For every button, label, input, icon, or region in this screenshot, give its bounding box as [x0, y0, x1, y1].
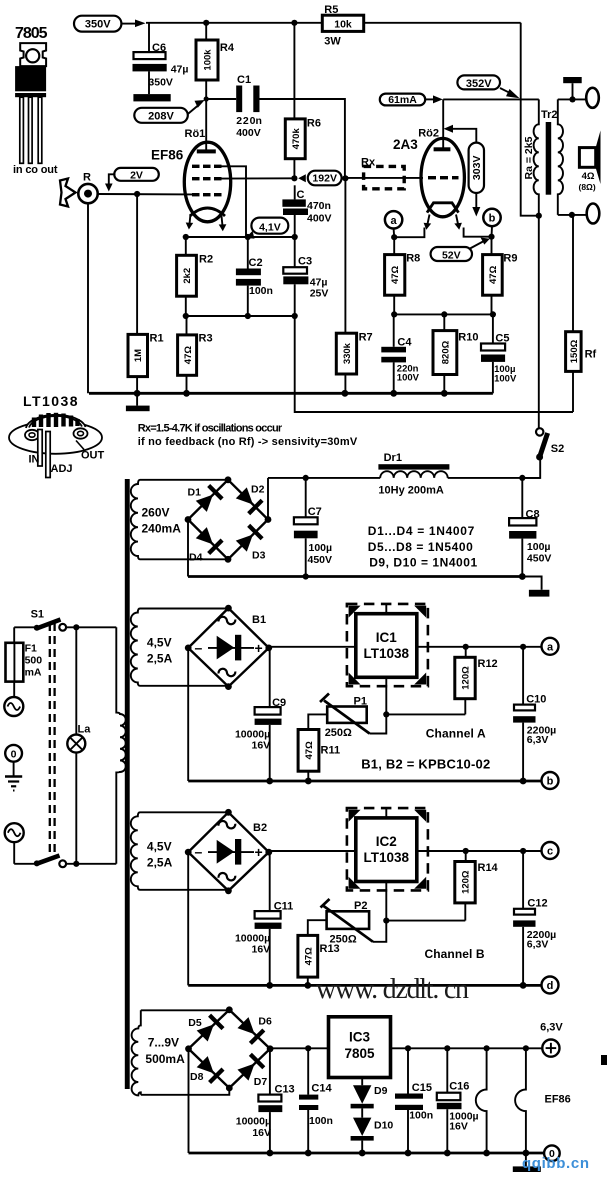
wire filament left — [394, 228, 424, 238]
Tr2 primary winding — [534, 99, 539, 215]
svg-text:16V: 16V — [252, 740, 271, 752]
svg-text:www. dzdlt. cn: www. dzdlt. cn — [316, 974, 469, 1005]
junction dot C10 top — [520, 644, 526, 650]
wire bus B — [188, 984, 541, 987]
fuse F1 500mA — [6, 627, 43, 681]
junction dot R1/ground — [134, 390, 141, 397]
node 350V label — [74, 16, 146, 32]
diode D4 — [195, 526, 224, 555]
svg-text:1M: 1M — [133, 349, 144, 362]
junction dot R12 top — [463, 644, 469, 650]
junction dot C13 bottom — [267, 1150, 274, 1157]
wire ADJ line (B) — [383, 882, 465, 924]
resistor R7 330k — [336, 178, 372, 393]
svg-text:303V: 303V — [471, 156, 483, 181]
svg-text:4Ω: 4Ω — [582, 171, 595, 182]
svg-text:4,5V: 4,5V — [147, 636, 172, 650]
junction dot heater1 top — [484, 1045, 490, 1051]
svg-text:D9: D9 — [374, 1085, 388, 1097]
svg-text:470n: 470n — [307, 200, 331, 212]
capacitor C13 10000u 16V — [236, 1049, 295, 1153]
svg-text:D5...D8 = 1N5400: D5...D8 = 1N5400 — [368, 540, 473, 554]
junction dot C2 bottom — [245, 313, 251, 319]
svg-text:6,3V: 6,3V — [527, 734, 549, 746]
wire bridge plus up to HV rail — [267, 478, 269, 520]
junction dot b — [488, 234, 494, 240]
ground (below C6) — [133, 94, 170, 101]
svg-text:2,5A: 2,5A — [147, 856, 173, 870]
speaker 4ohm (8ohm) — [579, 131, 601, 193]
diode D1 — [195, 484, 224, 513]
svg-text:–: – — [195, 844, 203, 860]
svg-text:B2: B2 — [253, 822, 267, 834]
capacitor C1 220n 400V — [236, 74, 262, 139]
svg-text:C4: C4 — [397, 336, 412, 348]
winding 4,5V 2,5A (A) — [131, 609, 173, 686]
bridge B2 — [185, 809, 272, 894]
wire cathode line — [186, 236, 295, 238]
Tr2 secondary winding — [558, 99, 563, 214]
svg-text:R14: R14 — [478, 862, 499, 874]
svg-text:Rx=1.5-4.7K if oscillations oc: Rx=1.5-4.7K if oscillations occur — [138, 423, 283, 435]
svg-text:260V: 260V — [142, 506, 170, 520]
svg-text:R7: R7 — [359, 332, 373, 344]
wire HV return bus — [188, 575, 522, 578]
wire winding to bridge bottom — [140, 558, 228, 560]
svg-text:S1: S1 — [31, 609, 44, 621]
svg-text:Rö2: Rö2 — [418, 128, 439, 140]
resistor R6 470k — [285, 23, 321, 179]
wire secondary top — [558, 98, 587, 100]
junction dot C8 return — [519, 573, 526, 580]
junction dot heater1 bottom — [483, 1150, 490, 1157]
edge mark right — [601, 1055, 607, 1065]
resistor R13 47ohm — [298, 935, 340, 985]
svg-text:C5: C5 — [495, 333, 509, 345]
junction dot C15 top — [405, 1045, 411, 1051]
rectifier bridge D1-D4 — [188, 480, 268, 560]
junction dot C10 bottom — [520, 778, 527, 785]
ground (main bus) — [126, 393, 150, 411]
svg-text:47Ω: 47Ω — [488, 265, 499, 284]
svg-text:100n: 100n — [309, 1115, 333, 1127]
svg-text:C7: C7 — [308, 506, 322, 518]
wire B1 plus to IC1 — [269, 646, 356, 648]
svg-text:R11: R11 — [321, 745, 341, 757]
capacitor C11 10000u 16V — [235, 852, 293, 985]
svg-text:S2: S2 — [551, 443, 564, 455]
wire B2 plus to IC2 — [269, 850, 356, 852]
switch S1 (lower pole) — [14, 856, 116, 868]
svg-text:7805: 7805 — [344, 1046, 375, 1061]
junction dot C9 bottom — [266, 778, 273, 785]
svg-text:mA: mA — [25, 667, 42, 679]
IC package LT1038 (TO-3) — [9, 393, 105, 478]
transformer core — [125, 479, 130, 1089]
wire winding to B1 — [140, 608, 228, 610]
input plug symbol — [60, 179, 76, 207]
junction dot C15 bottom — [405, 1150, 412, 1157]
svg-text:C2: C2 — [249, 257, 263, 269]
node 6,3V plus — [540, 1022, 563, 1057]
junction dot a — [391, 234, 397, 240]
svg-text:R10: R10 — [458, 332, 478, 344]
wire 350V rail — [146, 22, 322, 24]
regulator IC3 7805 — [329, 1017, 391, 1078]
svg-text:a: a — [547, 642, 554, 654]
wire bridge plus to IC3 — [270, 1047, 328, 1049]
svg-text:500mA: 500mA — [145, 1052, 185, 1066]
svg-text:208V: 208V — [148, 111, 174, 123]
svg-text:100n: 100n — [409, 1109, 433, 1121]
junction dot C8/rail — [519, 475, 525, 481]
capacitor C 470n 400V (screen bypass) — [282, 185, 331, 237]
svg-text:470k: 470k — [291, 128, 302, 150]
diode D2 — [235, 486, 264, 515]
AC source upper — [4, 682, 23, 716]
svg-text:R8: R8 — [406, 253, 420, 265]
output jack top — [586, 88, 599, 108]
svg-text:D5: D5 — [188, 1017, 202, 1029]
svg-text:330k: 330k — [342, 342, 353, 364]
resistor Rf 150ohm — [566, 215, 597, 412]
svg-text:C3: C3 — [298, 256, 312, 268]
svg-text:IC3: IC3 — [349, 1030, 371, 1045]
junction dots bridge corners — [225, 476, 232, 483]
svg-text:250Ω: 250Ω — [325, 727, 352, 739]
junction dot R7/ground — [342, 390, 349, 397]
svg-text:D9, D10 = 1N4001: D9, D10 = 1N4001 — [369, 555, 477, 569]
node b (supply) — [542, 772, 559, 789]
capacitor C9 10000u 16V — [235, 648, 286, 781]
potentiometer P2 250ohm — [321, 899, 387, 945]
resistor R8 47ohm — [385, 237, 421, 314]
svg-text:120Ω: 120Ω — [461, 870, 472, 894]
junction dot heater2 bottom / ground — [523, 1150, 530, 1157]
transformer primary winding — [116, 627, 125, 864]
svg-text:IN: IN — [29, 454, 40, 466]
node b (amp) — [483, 209, 500, 237]
wire C1 to grid line — [260, 99, 345, 178]
svg-text:D4: D4 — [189, 552, 203, 564]
wire IC2 out to node c — [417, 850, 542, 852]
resistor R3 47ohm — [178, 316, 213, 393]
diode D9 — [351, 1078, 388, 1118]
svg-text:10000µ: 10000µ — [236, 1116, 271, 1128]
capacitor C7 100u 450V — [294, 478, 332, 577]
svg-text:LT1038: LT1038 — [364, 850, 410, 865]
junction dot R10/ground — [441, 390, 448, 397]
ground (chassis above speaker) — [563, 77, 582, 99]
capacitor C12 2200u 6,3V — [513, 851, 556, 985]
wire cathode bottom line — [186, 315, 295, 317]
junction dot Tr2 primary bottom — [536, 213, 542, 219]
junction dot R9/C5 — [490, 311, 496, 317]
svg-text:C11: C11 — [274, 901, 294, 913]
rectifier bridge D5-D8 — [189, 1010, 271, 1088]
svg-text:500: 500 — [25, 655, 43, 667]
svg-text:R3: R3 — [199, 333, 213, 345]
junction dot 350V/R6 — [291, 20, 297, 26]
regulator IC1 LT1038 — [347, 604, 428, 686]
junction dot R13 bottom — [304, 982, 311, 989]
resistor R14 120ohm — [455, 851, 499, 921]
svg-text:La: La — [78, 724, 92, 736]
svg-text:820Ω: 820Ω — [440, 340, 451, 364]
svg-text:c: c — [547, 846, 553, 858]
svg-text:Rö1: Rö1 — [185, 128, 206, 140]
junction dot C3 bottom / feedback — [292, 313, 298, 319]
resistor R4 100k — [196, 23, 235, 99]
svg-text:52V: 52V — [442, 249, 461, 261]
lamp La — [67, 627, 91, 864]
IC package 7805 (TO-220) — [13, 25, 58, 176]
bridge B1 — [185, 605, 272, 690]
wire g3 to cathode — [221, 166, 246, 237]
svg-text:C15: C15 — [412, 1082, 432, 1094]
resistor R12 120ohm — [455, 647, 498, 715]
node c (supply) — [542, 842, 559, 859]
capacitor C4 220n 100V — [381, 314, 419, 393]
wire winding to B2 — [140, 811, 228, 813]
regulator IC2 LT1038 — [347, 808, 428, 890]
node a (amp) — [385, 211, 402, 237]
junction dot R2/R3 — [183, 313, 189, 319]
svg-text:qqibb.cn: qqibb.cn — [522, 1155, 589, 1172]
resistor R9 47ohm — [483, 237, 518, 315]
potentiometer P1 250ohm — [320, 694, 386, 739]
svg-text:47Ω: 47Ω — [390, 265, 401, 284]
svg-text:R9: R9 — [503, 253, 517, 265]
svg-text:C10: C10 — [526, 694, 546, 706]
svg-text:350V: 350V — [85, 19, 111, 31]
svg-text:100V: 100V — [397, 373, 420, 384]
wire bridge minus down to heater bus — [188, 1049, 190, 1153]
resistor Rx (dashed) — [345, 157, 423, 189]
svg-text:Channel A: Channel A — [426, 727, 486, 741]
svg-text:2k2: 2k2 — [182, 268, 193, 284]
svg-text:D7: D7 — [254, 1076, 268, 1088]
wire P1 left to R11 — [308, 714, 327, 729]
svg-text:Channel B: Channel B — [425, 947, 485, 961]
node d (supply) — [542, 977, 559, 994]
svg-text:10k: 10k — [334, 19, 352, 31]
svg-text:LT1038: LT1038 — [23, 393, 78, 409]
svg-text:EF86: EF86 — [151, 148, 184, 163]
svg-text:Rf: Rf — [585, 349, 597, 361]
node 0 terminal — [544, 1145, 560, 1161]
junction dot R14 top — [463, 848, 469, 854]
junction dot C11 bottom — [266, 982, 273, 989]
svg-text:D1...D4 = 1N4007: D1...D4 = 1N4007 — [368, 524, 475, 538]
output jack bottom — [587, 204, 600, 224]
switch S2 — [522, 216, 564, 478]
svg-text:Ra = 2k5: Ra = 2k5 — [523, 136, 535, 179]
svg-text:OUT: OUT — [81, 450, 105, 462]
svg-text:47Ω: 47Ω — [183, 346, 194, 365]
svg-text:47Ω: 47Ω — [303, 947, 314, 966]
svg-text:ADJ: ADJ — [51, 463, 73, 475]
svg-text:D3: D3 — [252, 550, 266, 562]
svg-text:100µ: 100µ — [309, 542, 333, 554]
heater EF86 no.2 — [515, 1048, 526, 1153]
svg-text:R1: R1 — [150, 333, 164, 345]
wire winding to bridge top — [140, 479, 228, 481]
ground (HV) — [522, 577, 549, 597]
svg-text:+: + — [255, 640, 263, 656]
switch link (dashed) — [49, 623, 51, 858]
svg-text:Dr1: Dr1 — [384, 452, 402, 464]
diode D6 — [236, 1016, 265, 1045]
resistor R2 2k2 — [177, 237, 213, 316]
junction dot cathode/C2 — [245, 234, 251, 240]
svg-text:4,1V: 4,1V — [259, 221, 281, 233]
junction dot lamp top — [73, 624, 79, 630]
diode D7 — [236, 1053, 265, 1082]
svg-text:100n: 100n — [249, 285, 273, 297]
wire filament bias bus — [394, 313, 493, 315]
svg-text:–: – — [195, 640, 203, 656]
svg-text:R6: R6 — [307, 118, 321, 130]
wire feedback bus to Rf — [295, 316, 573, 412]
svg-text:R13: R13 — [320, 943, 340, 955]
svg-text:D6: D6 — [258, 1016, 272, 1028]
wire heater return bus — [189, 1152, 545, 1155]
svg-text:in co out: in co out — [13, 164, 58, 176]
wire anode to C1 — [206, 98, 236, 100]
wire secondary bottom — [558, 214, 587, 216]
svg-text:R4: R4 — [220, 42, 235, 54]
svg-text:B1: B1 — [252, 614, 266, 626]
node 208V label — [134, 100, 204, 123]
junction dot cathode/R2 — [183, 234, 189, 240]
wire winding to D bridge — [141, 1009, 230, 1011]
heater EF86 no.1 — [476, 1048, 487, 1153]
junction dot lamp bottom — [73, 861, 79, 867]
junction dot cathode/C3 — [292, 234, 298, 240]
svg-text:Tr2: Tr2 — [541, 109, 558, 121]
svg-text:R2: R2 — [199, 254, 213, 266]
capacitor C14 100n — [299, 1048, 333, 1153]
winding 4,5V 2,5A (B) — [131, 812, 173, 890]
svg-text:16V: 16V — [449, 1121, 468, 1133]
capacitor C2 100n — [236, 237, 273, 316]
terminal 0 with earth — [5, 745, 22, 791]
choke Dr1 10Hy 200mA — [378, 452, 449, 497]
svg-text:100k: 100k — [203, 49, 214, 71]
svg-text:F1: F1 — [25, 643, 37, 655]
capacitor C6 47u 350V — [133, 23, 189, 94]
winding 7...9V 500mA — [132, 1010, 185, 1095]
wire g2 to 192V node — [221, 177, 294, 179]
node 2V label — [105, 168, 159, 192]
svg-text:100µ: 100µ — [527, 541, 551, 553]
svg-text:D1: D1 — [188, 487, 202, 499]
svg-text:6,3V: 6,3V — [540, 1022, 563, 1034]
capacitor C8 100u 450V — [509, 478, 551, 577]
wire B+ from R5 down to Tr2 bottom — [521, 23, 539, 216]
svg-text:C: C — [297, 189, 305, 201]
junction dot C7/rail — [303, 475, 309, 481]
junction dot R11 bottom — [305, 778, 312, 785]
diode D3 — [235, 524, 264, 553]
capacitor C15 100n — [395, 1048, 433, 1153]
svg-text:450V: 450V — [527, 553, 552, 565]
svg-text:C8: C8 — [526, 509, 540, 521]
svg-text:EF86: EF86 — [545, 1094, 571, 1106]
svg-text:R: R — [83, 172, 91, 184]
junction dot grid/R1 — [134, 191, 140, 197]
capacitor C10 2200u 6,3V — [513, 647, 556, 781]
node 61mA label — [380, 94, 443, 107]
wire filament right — [464, 228, 492, 237]
junction dot C12 top — [520, 848, 526, 854]
diode D10 — [351, 1118, 394, 1153]
transformer Tr2 — [523, 99, 563, 215]
svg-text:100V: 100V — [494, 374, 517, 385]
svg-text:C13: C13 — [275, 1084, 295, 1096]
wire ADJ line — [383, 677, 465, 717]
svg-text:C16: C16 — [449, 1081, 469, 1093]
svg-text:16V: 16V — [252, 1127, 271, 1139]
svg-text:2V: 2V — [130, 169, 143, 181]
junction dot R10 top — [441, 311, 447, 317]
svg-text:B1, B2 = KPBC10-02: B1, B2 = KPBC10-02 — [361, 757, 490, 772]
svg-text:D10: D10 — [374, 1120, 393, 1132]
wire bus A — [188, 780, 541, 783]
svg-text:10Hy 200mA: 10Hy 200mA — [378, 485, 443, 497]
junction dot secondary top — [569, 96, 575, 102]
svg-text:C12: C12 — [527, 898, 547, 910]
junction dot 350V/R4 — [203, 20, 209, 26]
svg-text:C14: C14 — [311, 1083, 332, 1095]
wire B2 minus down to bus B — [187, 852, 189, 985]
resistor R10 820ohm — [433, 314, 478, 393]
junction dot R6/C470n — [291, 175, 297, 181]
svg-text:b: b — [489, 213, 496, 225]
svg-text:400V: 400V — [236, 127, 261, 139]
svg-text:+: + — [255, 844, 263, 860]
svg-text:0: 0 — [11, 749, 17, 761]
junction dot C7 return — [303, 573, 309, 579]
svg-text:350V: 350V — [148, 76, 173, 88]
resistor R5 10k 3W — [322, 4, 363, 48]
svg-text:C9: C9 — [272, 697, 286, 709]
junction dot C12 bottom — [520, 982, 527, 989]
svg-text:D8: D8 — [190, 1071, 204, 1083]
node 52V label — [431, 238, 490, 262]
svg-text:LT1038: LT1038 — [364, 646, 410, 661]
wire anode feed line — [443, 98, 539, 100]
capacitor C3 47u 25V — [283, 237, 328, 316]
switch S1 (upper pole) — [14, 609, 116, 631]
svg-text:C1: C1 — [237, 74, 251, 86]
node 4,1V label — [246, 218, 289, 239]
svg-text:if no feedback (no Rf) -> sens: if no feedback (no Rf) -> sensivity=30mV — [138, 436, 358, 448]
svg-text:d: d — [547, 980, 554, 992]
svg-text:150Ω: 150Ω — [569, 339, 580, 363]
svg-text:47Ω: 47Ω — [304, 741, 315, 760]
svg-text:3W: 3W — [324, 36, 341, 48]
svg-text:7...9V: 7...9V — [148, 1036, 179, 1050]
svg-text:2A3: 2A3 — [393, 137, 418, 152]
svg-text:C6: C6 — [152, 42, 166, 54]
wire IC3 out to 6,3V — [391, 1047, 543, 1049]
svg-text:(8Ω): (8Ω) — [579, 182, 596, 192]
input jack R — [78, 172, 97, 394]
junction dot R8/C4 — [391, 311, 397, 317]
resistor R11 47ohm — [298, 730, 340, 782]
